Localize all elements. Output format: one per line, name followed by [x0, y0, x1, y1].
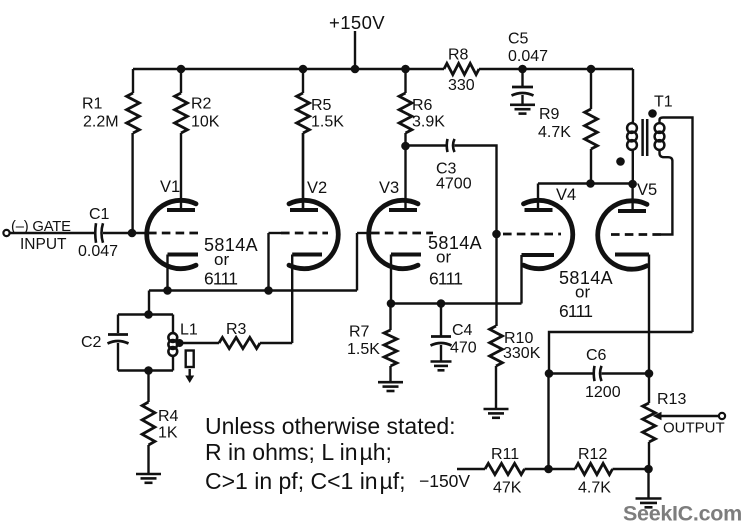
- ground R7: [378, 381, 403, 384]
- svg-text:V5: V5: [637, 181, 657, 199]
- tube V2 cathode: [292, 253, 322, 257]
- svg-text:T1: T1: [654, 94, 673, 111]
- svg-text:1.5K: 1.5K: [347, 341, 380, 358]
- wire R3 to V2 cathode: [260, 342, 292, 344]
- svg-text:C4: C4: [452, 322, 473, 339]
- node tank bottom: [144, 366, 153, 375]
- svg-text:3.9K: 3.9K: [412, 114, 445, 131]
- node V5 plate junction: [628, 180, 637, 189]
- svg-text:47K: 47K: [493, 480, 522, 497]
- capacitor C3: [445, 139, 448, 152]
- resistor R8: [444, 63, 479, 74]
- node C5 top: [518, 65, 527, 74]
- svg-text:INPUT: INPUT: [20, 236, 67, 253]
- wire cathode rail 2: [391, 302, 522, 304]
- svg-text:−150V: −150V: [419, 471, 470, 491]
- tube V2 envelope: [289, 200, 338, 268]
- svg-text:R5: R5: [311, 97, 332, 114]
- wire plate rail: [538, 182, 633, 184]
- wire T1 secondary bottom to V5 grid: [660, 149, 673, 235]
- transformer T1 primary: [627, 123, 637, 133]
- transformer T1 core: [641, 119, 644, 156]
- svg-text:or: or: [436, 248, 451, 267]
- svg-text:C5: C5: [508, 31, 529, 48]
- wire C3 to V4 grid and R10: [455, 146, 497, 327]
- svg-text:+150V: +150V: [329, 12, 385, 33]
- wire tank bottom: [118, 369, 173, 371]
- wire top supply bus: [133, 68, 444, 70]
- svg-text:1.5K: 1.5K: [311, 114, 344, 131]
- resistor R12: [575, 463, 613, 474]
- svg-text:470: 470: [450, 340, 477, 357]
- slug tuning symbol: [186, 351, 194, 368]
- svg-text:1200: 1200: [585, 384, 621, 401]
- terminal output: [719, 413, 725, 419]
- svg-text:10K: 10K: [191, 114, 220, 131]
- node V4 grid junction: [492, 230, 501, 239]
- tube V4 cathode: [522, 253, 555, 257]
- tube V5 envelope: [598, 201, 647, 269]
- node C4 top: [437, 299, 446, 308]
- tube V5 grid: [611, 233, 661, 236]
- resistor R5: [302, 69, 304, 93]
- svg-text:4.7K: 4.7K: [538, 124, 571, 141]
- node V1 cathode junction: [163, 286, 172, 295]
- tube V5 plate: [618, 209, 646, 213]
- ground output: [636, 497, 662, 500]
- resistor R2: [180, 69, 182, 93]
- ground R4: [136, 473, 161, 476]
- node divider junction: [544, 465, 553, 474]
- node C6 left: [545, 369, 554, 378]
- svg-text:V2: V2: [307, 179, 327, 197]
- wire input: [10, 232, 95, 234]
- svg-text:R3: R3: [226, 321, 247, 338]
- wire -150V: [457, 468, 485, 470]
- tube V1 envelope: [147, 200, 196, 268]
- svg-text:R13: R13: [657, 391, 686, 408]
- svg-text:L1: L1: [180, 322, 198, 339]
- svg-text:R2: R2: [191, 96, 212, 113]
- tube V3 cathode: [391, 253, 421, 257]
- svg-text:R8: R8: [448, 47, 469, 64]
- tube V1 plate: [167, 208, 195, 212]
- node R5 top: [299, 65, 308, 74]
- svg-text:4700: 4700: [436, 176, 472, 193]
- svg-text:R4: R4: [158, 408, 179, 425]
- wire V2 grid bracket: [267, 233, 269, 291]
- ground R10: [484, 408, 509, 411]
- wire tank top: [118, 313, 173, 315]
- potentiometer R13: [643, 403, 656, 442]
- pot R13 wiper: [653, 412, 662, 420]
- wire T1 secondary top to right rail: [660, 118, 693, 333]
- tube V1 cathode: [168, 253, 199, 257]
- svg-text:0.047: 0.047: [78, 243, 118, 260]
- svg-text:4.7K: 4.7K: [578, 480, 611, 497]
- svg-text:C6: C6: [586, 347, 607, 364]
- wire C6 left: [549, 372, 594, 374]
- svg-text:R12: R12: [578, 446, 607, 463]
- wire R13 bottom to ground: [647, 469, 649, 498]
- wire bus to T1 primary: [632, 69, 634, 121]
- wire cathode-grid rail: [149, 233, 357, 315]
- wire C1 to grid node: [103, 232, 147, 234]
- tube V2 grid: [281, 232, 328, 235]
- tube V4 plate: [525, 208, 553, 212]
- resistor R7: [389, 304, 391, 331]
- node R2 top: [177, 65, 186, 74]
- svg-text:Unless otherwise stated:: Unless otherwise stated:: [205, 413, 456, 439]
- svg-text:V4: V4: [556, 186, 576, 204]
- tube V4 grid: [503, 233, 561, 236]
- resistor R3: [219, 337, 260, 348]
- svg-text:5814A: 5814A: [204, 235, 258, 255]
- terminal input: [3, 230, 9, 236]
- node T1 phase dot primary: [616, 157, 625, 166]
- node +150V junction: [351, 65, 360, 74]
- svg-text:V1: V1: [160, 178, 180, 196]
- capacitor C5: [521, 69, 523, 86]
- node tank top: [144, 310, 153, 319]
- node V2 grid junction: [264, 286, 273, 295]
- wire +150V lead: [354, 31, 356, 69]
- svg-text:C2: C2: [81, 334, 102, 351]
- tube V5 cathode: [615, 253, 649, 257]
- capacitor C1: [94, 223, 97, 243]
- svg-text:330K: 330K: [503, 345, 541, 362]
- svg-text:R1: R1: [82, 96, 103, 113]
- svg-text:R6: R6: [412, 97, 433, 114]
- node R13 top: [645, 369, 654, 378]
- wire C6 to divider: [547, 374, 549, 470]
- tube V4 envelope: [524, 200, 573, 268]
- svg-text:0.047: 0.047: [508, 48, 548, 65]
- svg-text:6111: 6111: [204, 269, 237, 289]
- svg-text:6111: 6111: [429, 269, 462, 289]
- svg-text:C>1 in pf; C<1 in µf;: C>1 in pf; C<1 in µf;: [205, 468, 406, 494]
- tube V3 plate: [389, 208, 417, 212]
- inductor L1: [172, 315, 174, 335]
- resistor R1: [132, 69, 134, 93]
- resistor R4: [147, 371, 149, 403]
- resistor R10: [490, 326, 503, 366]
- node R6 bottom: [401, 142, 410, 151]
- wire R12 to R13: [613, 468, 649, 470]
- wire R11 to R12: [525, 468, 576, 470]
- tube V1 grid: [148, 232, 203, 235]
- ground C4: [431, 360, 452, 363]
- svg-text:C1: C1: [89, 206, 110, 223]
- node R9 top: [587, 65, 596, 74]
- node L1 tap: [176, 339, 184, 347]
- node R9 bottom: [586, 179, 595, 188]
- tube V3 envelope: [369, 200, 418, 268]
- svg-text:V3: V3: [379, 179, 399, 197]
- resistor R11: [485, 463, 525, 474]
- svg-text:R in ohms; L in µh;: R in ohms; L in µh;: [205, 439, 392, 465]
- node R6 top: [401, 65, 410, 74]
- resistor R9: [590, 69, 592, 109]
- node T1 phase dot secondary: [648, 109, 657, 118]
- node R13 bottom: [644, 465, 653, 474]
- wire R6 to C3: [406, 144, 447, 146]
- svg-text:or: or: [575, 283, 590, 302]
- svg-text:or: or: [214, 250, 229, 269]
- wire feedback right rail: [549, 332, 693, 374]
- node input junction: [128, 229, 137, 238]
- ground C5: [510, 104, 535, 107]
- capacitor C2: [117, 315, 119, 334]
- svg-text:SeekIC.com: SeekIC.com: [623, 502, 742, 526]
- transformer T1 secondary: [655, 123, 665, 133]
- resistor R6: [404, 69, 406, 93]
- svg-text:6111: 6111: [559, 301, 592, 321]
- tube V2 plate: [290, 208, 318, 212]
- svg-text:R11: R11: [491, 446, 519, 463]
- wire T1 primary to plate node: [632, 151, 634, 184]
- svg-text:R7: R7: [349, 324, 370, 341]
- wire C6 right: [602, 372, 650, 374]
- capacitor C4: [440, 304, 442, 336]
- wire L1 tap to R3: [180, 342, 220, 344]
- tube V3 grid: [371, 232, 433, 235]
- svg-text:330: 330: [448, 77, 475, 94]
- svg-text:1K: 1K: [158, 425, 178, 442]
- svg-text:OUTPUT: OUTPUT: [663, 420, 725, 437]
- node R7 top: [387, 299, 396, 308]
- svg-text:R9: R9: [539, 106, 560, 123]
- capacitor C6: [592, 366, 595, 381]
- svg-text:2.2M: 2.2M: [83, 114, 119, 131]
